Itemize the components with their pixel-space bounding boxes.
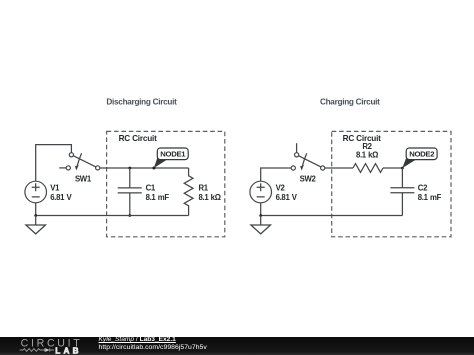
wire V1 top to SW1 bbox=[36, 145, 72, 182]
RC Circuit dashed box (right) bbox=[332, 131, 451, 236]
svg-text:8.1 mF: 8.1 mF bbox=[146, 193, 170, 202]
wire R2 to node bbox=[383, 167, 402, 169]
svg-text:C2: C2 bbox=[418, 184, 428, 193]
svg-text:R2: R2 bbox=[362, 142, 372, 151]
wire V2 bottom bbox=[260, 203, 262, 216]
svg-text:NODE1: NODE1 bbox=[160, 150, 186, 159]
wire V1 bottom bbox=[35, 203, 37, 216]
svg-text:Discharging Circuit: Discharging Circuit bbox=[106, 98, 177, 107]
toggle arrow bbox=[77, 153, 81, 166]
terminal circles bbox=[69, 153, 73, 157]
bottom rail (left circuit) bbox=[36, 215, 189, 217]
toggle arrow bbox=[303, 153, 307, 166]
switch SW1 bbox=[59, 153, 99, 171]
node flag NODE1 bbox=[152, 148, 188, 170]
svg-text:V2: V2 bbox=[276, 184, 286, 193]
svg-text:8.1 mF: 8.1 mF bbox=[418, 193, 442, 202]
footer bar bbox=[0, 337, 474, 355]
wire V2 top to SW2 bbox=[261, 168, 292, 181]
svg-text:Charging Circuit: Charging Circuit bbox=[320, 98, 380, 107]
svg-text:C1: C1 bbox=[146, 184, 156, 193]
svg-text:6.81 V: 6.81 V bbox=[276, 193, 298, 202]
resistor R1 bbox=[184, 168, 193, 216]
CircuitLab logo bbox=[0, 337, 95, 355]
footer credit text bbox=[99, 336, 207, 350]
resistor R2 bbox=[353, 164, 383, 173]
junction C1 bottom bbox=[128, 214, 131, 217]
svg-text:8.1 kΩ: 8.1 kΩ bbox=[199, 193, 221, 202]
svg-text:6.81 V: 6.81 V bbox=[50, 193, 72, 202]
ground (left) bbox=[26, 216, 46, 234]
svg-text:SW1: SW1 bbox=[75, 174, 92, 183]
svg-text:V1: V1 bbox=[50, 184, 60, 193]
blade bbox=[298, 156, 321, 167]
node flag NODE2 bbox=[402, 148, 437, 168]
svg-text:NODE2: NODE2 bbox=[409, 150, 434, 159]
junction C1 top bbox=[128, 167, 131, 170]
svg-text:LAB: LAB bbox=[55, 346, 81, 355]
voltage source V1 bbox=[25, 181, 47, 203]
ground (right) bbox=[251, 216, 271, 234]
terminal circles bbox=[295, 153, 299, 157]
logo squiggle: wire + resistor + diode bbox=[20, 348, 45, 352]
svg-text:8.1 kΩ: 8.1 kΩ bbox=[356, 151, 378, 160]
bottom rail (right circuit) bbox=[261, 215, 403, 217]
stub to open terminal bbox=[59, 167, 66, 169]
node wire SW1 to R1 bbox=[100, 167, 189, 169]
junction R2/C2/NODE2 bbox=[401, 167, 404, 170]
svg-text:SW2: SW2 bbox=[300, 174, 317, 183]
stub from top terminal bbox=[296, 143, 298, 152]
blade bbox=[73, 156, 96, 167]
junction V1 bottom bbox=[34, 214, 37, 217]
switch SW2 bbox=[291, 143, 325, 170]
wire SW2 to R2 bbox=[325, 167, 353, 169]
svg-text:R1: R1 bbox=[199, 184, 209, 193]
svg-text:RC Circuit: RC Circuit bbox=[119, 134, 158, 143]
RC Circuit dashed box (left) bbox=[107, 131, 225, 236]
voltage source V2 bbox=[250, 181, 272, 203]
capacitor C2 bbox=[390, 168, 414, 216]
capacitor C1 bbox=[118, 168, 142, 216]
junction V2 bottom bbox=[259, 214, 262, 217]
